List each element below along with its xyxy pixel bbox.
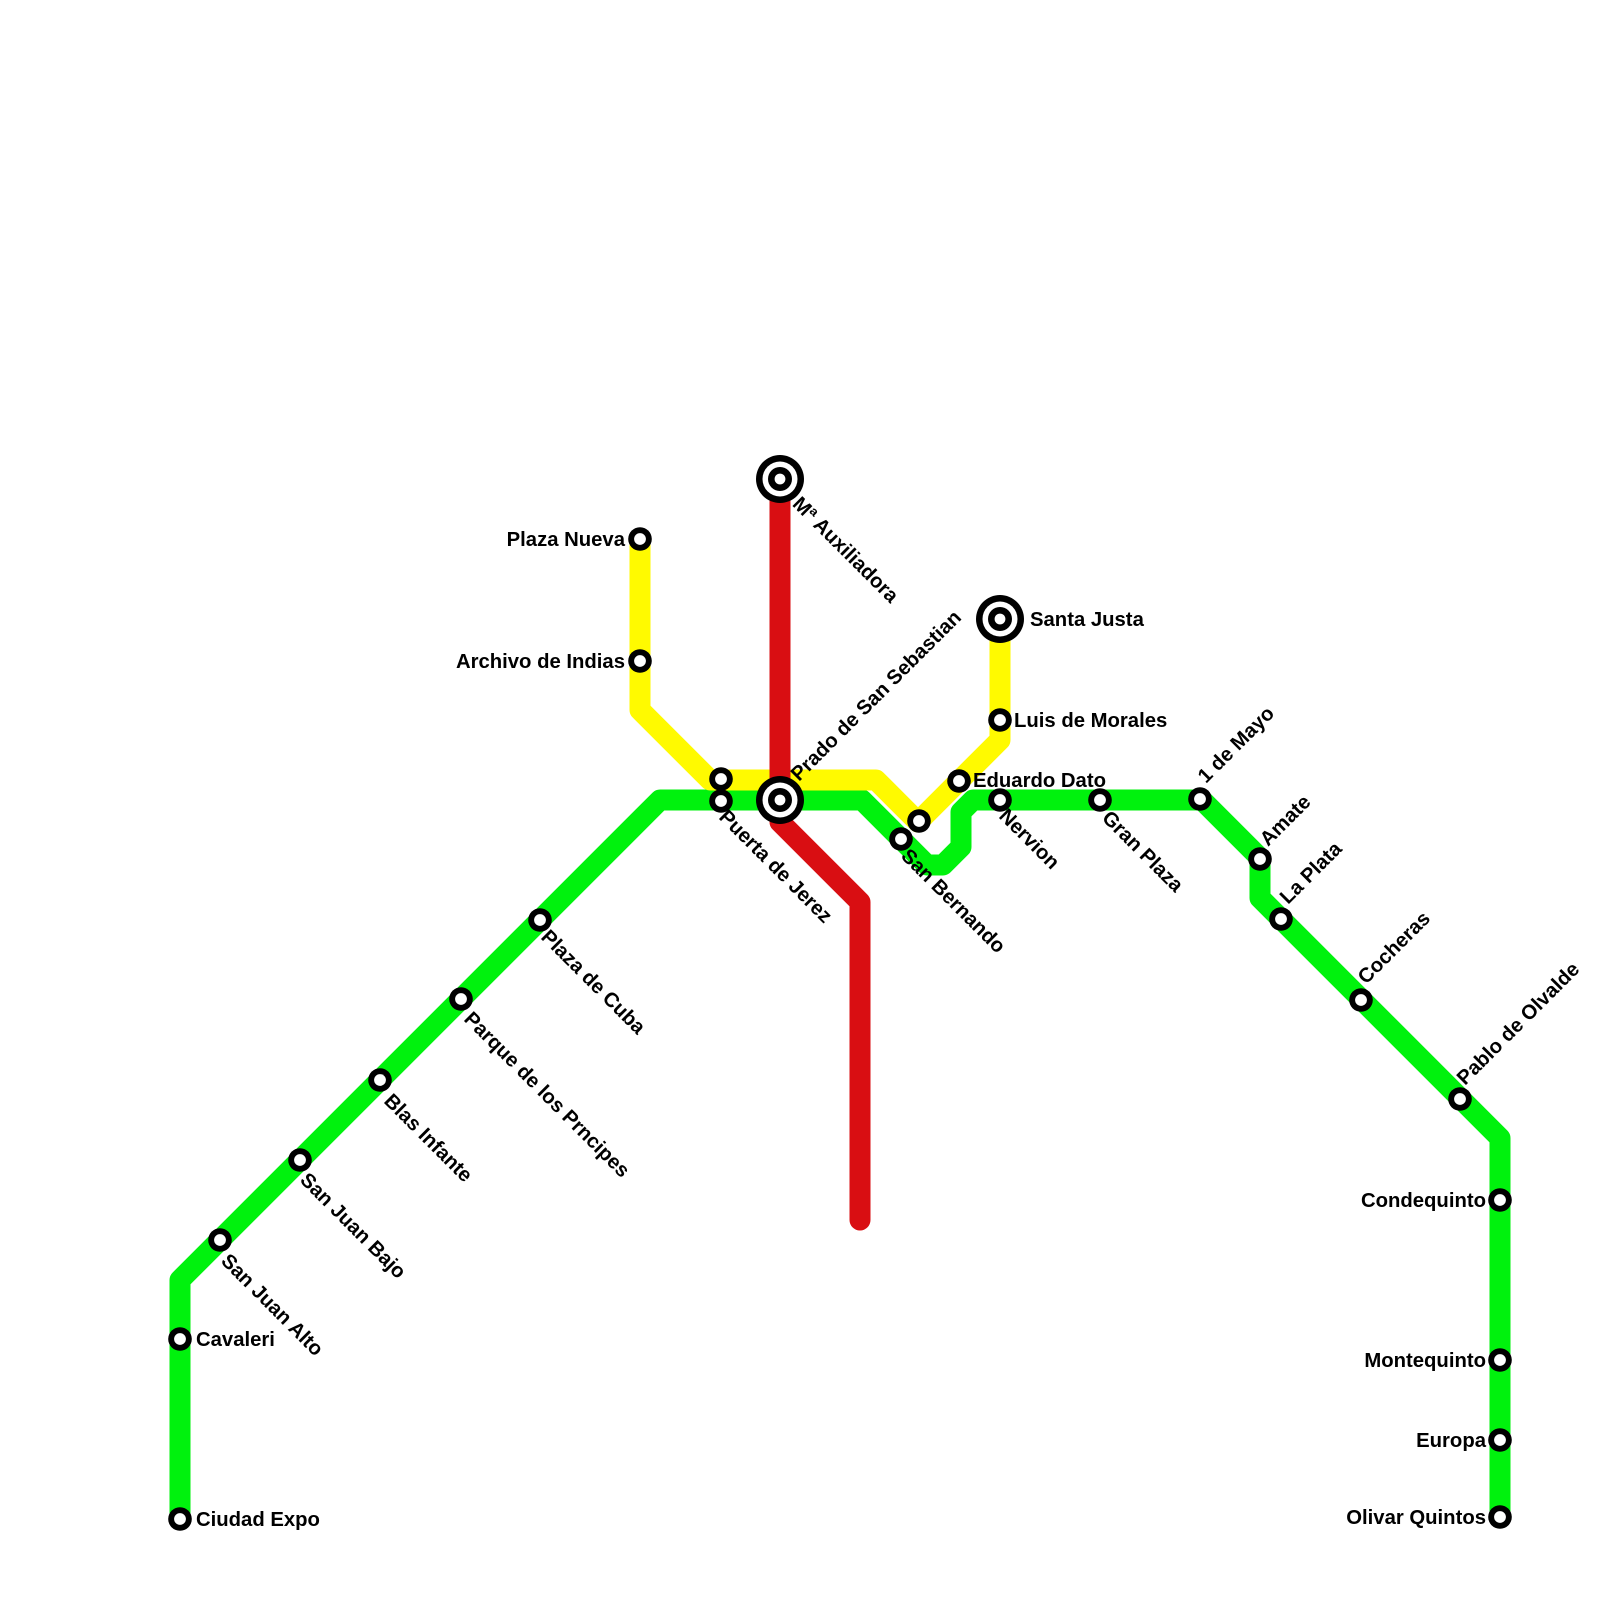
red line xyxy=(780,479,860,1220)
station Luis de Morales xyxy=(988,708,1012,732)
station Pablo de Olvalde xyxy=(1448,1087,1472,1111)
station San Bernando green xyxy=(889,827,913,851)
interchange Santa Justa xyxy=(976,595,1024,643)
station Europa xyxy=(1488,1428,1512,1452)
yellow line xyxy=(640,539,1000,822)
station 1 de Mayo xyxy=(1188,787,1212,811)
station Ciudad Expo xyxy=(168,1507,192,1531)
svg-text:Santa Justa: Santa Justa xyxy=(1030,609,1145,631)
station Eduardo Dato xyxy=(947,769,971,793)
station Condequinto xyxy=(1488,1188,1512,1212)
station San Bernando yellow xyxy=(907,809,931,833)
station Puerta de Jerez yellow xyxy=(709,767,733,791)
green line 1 xyxy=(180,800,1500,1519)
station San Juan Bajo xyxy=(288,1148,312,1172)
station Blas Infante xyxy=(368,1068,392,1092)
svg-text:Europa: Europa xyxy=(1416,1430,1487,1452)
svg-text:Eduardo Dato: Eduardo Dato xyxy=(973,770,1106,792)
station Parque de los Prncipes xyxy=(449,987,473,1011)
station Cocheras xyxy=(1349,988,1373,1012)
station Puerta de Jerez green xyxy=(709,789,733,813)
station Archivo de Indias xyxy=(628,649,652,673)
station Plaza de Cuba xyxy=(528,908,552,932)
station Gran Plaza xyxy=(1088,788,1112,812)
svg-text:Plaza Nueva: Plaza Nueva xyxy=(507,529,626,551)
svg-text:Cavaleri: Cavaleri xyxy=(196,1329,275,1351)
svg-text:Montequinto: Montequinto xyxy=(1364,1350,1486,1372)
svg-text:Luis de Morales: Luis de Morales xyxy=(1014,710,1167,732)
station Montequinto xyxy=(1488,1348,1512,1372)
svg-text:Archivo de Indias: Archivo de Indias xyxy=(456,651,625,673)
station San Juan Alto xyxy=(208,1228,232,1252)
interchange Ma Auxiliadora xyxy=(756,455,804,503)
interchange Prado de San Sebastian xyxy=(756,776,804,824)
station Nervion xyxy=(988,788,1012,812)
svg-text:Olivar Quintos: Olivar Quintos xyxy=(1346,1507,1486,1529)
svg-text:Ciudad Expo: Ciudad Expo xyxy=(196,1509,320,1531)
station Plaza Nueva xyxy=(628,527,652,551)
station La Plata xyxy=(1269,907,1293,931)
station Olivar Quintos xyxy=(1488,1505,1512,1529)
station Cavaleri xyxy=(168,1327,192,1351)
svg-text:Condequinto: Condequinto xyxy=(1361,1190,1486,1212)
station Amate xyxy=(1248,847,1272,871)
